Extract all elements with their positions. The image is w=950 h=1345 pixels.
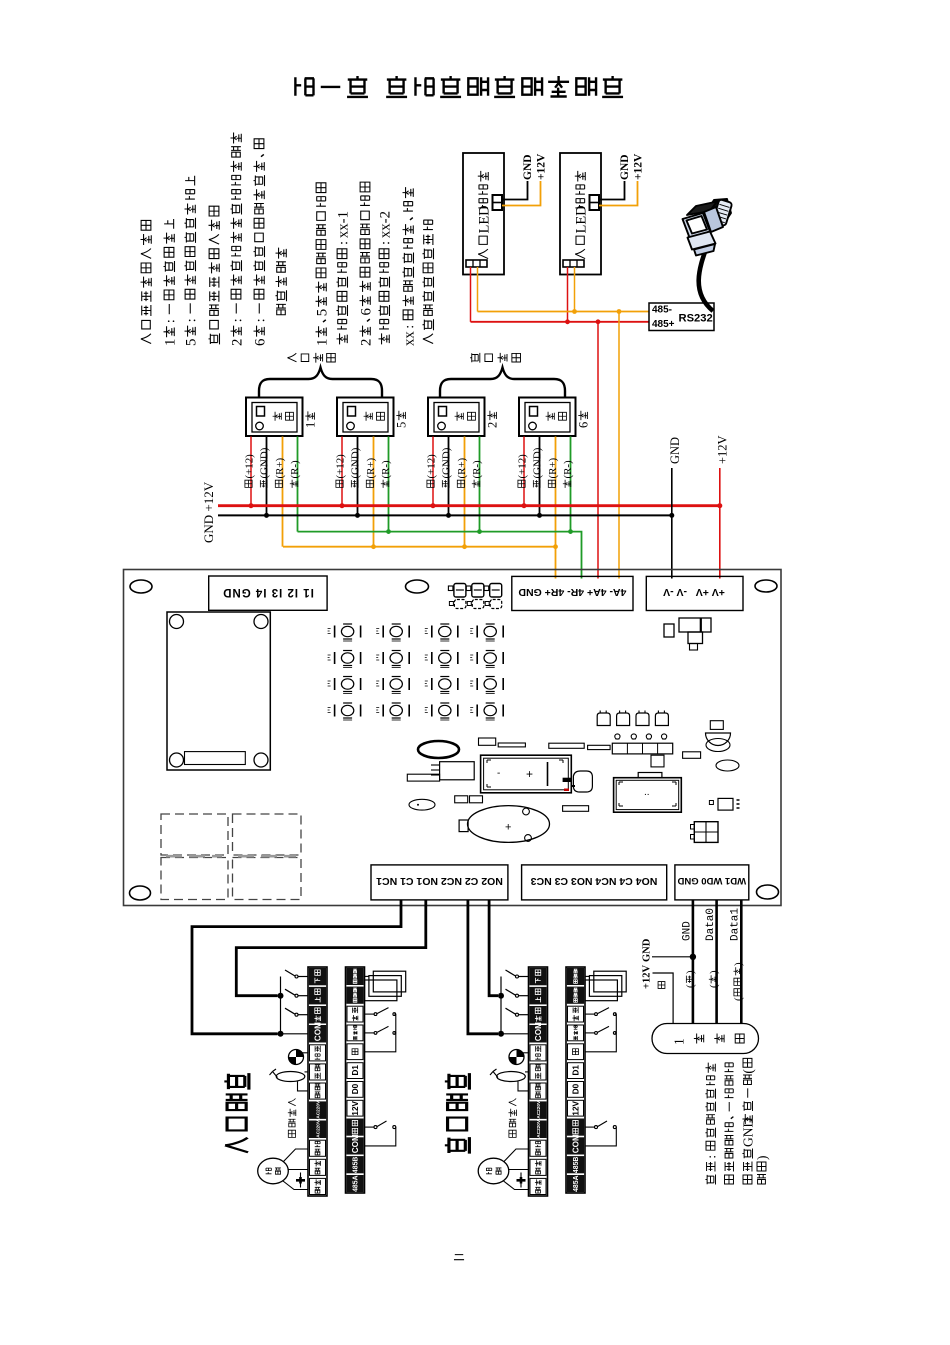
DC power jack — [664, 624, 674, 637]
label 出口读头 — [470, 353, 480, 363]
svg-text:Data0: Data0 — [705, 908, 717, 941]
svg-text:(: ( — [685, 984, 697, 988]
svg-text:(+12): (+12) — [244, 454, 256, 479]
page number — [454, 1255, 464, 1260]
svg-text:485B: 485B — [353, 1157, 360, 1173]
note 注意 — [705, 1063, 715, 1185]
motor 电机 — [258, 1158, 289, 1184]
terminal block +V +V -V -V — [646, 576, 743, 610]
svg-text:(R+): (R+) — [365, 457, 377, 478]
wire red 485+ down to 4A+ — [597, 322, 599, 579]
wire red +12 from reader — [432, 437, 434, 506]
wire yellow R+ from reader — [373, 437, 375, 547]
svg-text:+V +V -V -V: +V +V -V -V — [663, 586, 725, 598]
antenna 天线 — [525, 1071, 529, 1073]
wire 485+ red from LED display 1 — [470, 267, 472, 322]
wire black GND from reader — [266, 437, 268, 516]
wire 红 +12V to reader — [653, 973, 674, 1024]
switches 频率/灵敏度 to 地 — [365, 1013, 375, 1015]
label GND — [522, 154, 534, 180]
svg-text:+: + — [505, 822, 511, 834]
svg-text:+12V: +12V — [536, 153, 548, 180]
svg-text:(+12): (+12) — [517, 454, 529, 479]
buzzer — [468, 806, 550, 843]
svg-text:485-: 485- — [652, 305, 672, 316]
svg-text:4A- 4A+ 4R- 4R+ GND: 4A- 4A+ 4R- 4R+ GND — [518, 586, 626, 598]
connector (RS485) bottom of LED display — [563, 260, 584, 267]
svg-text:GND +12V: GND +12V — [201, 481, 216, 543]
switch 红外 to COM — [365, 1126, 375, 1128]
relay K2 — [614, 778, 682, 813]
svg-text:(R-): (R-) — [380, 460, 392, 479]
junction dots orange — [371, 544, 376, 549]
junction dots green — [386, 529, 391, 534]
label GND (to -V) — [668, 437, 682, 464]
wire black GND from reader — [448, 437, 450, 516]
net R+ orange bus — [283, 546, 556, 548]
svg-text:LED: LED — [476, 205, 492, 233]
svg-text:485A: 485A — [353, 1175, 360, 1191]
switches 频率/灵敏度 to 地 — [585, 1013, 595, 1015]
svg-text:(: ( — [708, 984, 720, 988]
terminal strip 入口道闸 strip2 — [346, 967, 365, 1193]
svg-text:+12V: +12V — [642, 965, 653, 989]
svg-text:): ) — [733, 962, 745, 966]
svg-text:WD1 WD0 GND: WD1 WD0 GND — [677, 875, 746, 886]
svg-text:(R+): (R+) — [547, 457, 559, 478]
svg-text:5: 5 — [183, 339, 199, 346]
label +12V (to +V) — [716, 435, 730, 464]
label GND +12V (power input) — [201, 481, 216, 543]
net R- green bus — [298, 532, 582, 579]
switch contacts 下键/上键/单键 — [519, 976, 529, 978]
terminal block WD1 WD0 GND — [675, 865, 749, 900]
svg-text:GND: GND — [619, 154, 631, 180]
wire +12V (orange) from LED display — [599, 181, 638, 206]
daughter board — [167, 612, 270, 770]
dashed expansion area — [161, 814, 228, 855]
RS232 converter box — [649, 303, 714, 331]
net +12V red bus — [218, 504, 720, 507]
terminal strip 入口道闸 strip1 — [308, 967, 327, 1196]
svg-text:AC220V: AC220V — [315, 1119, 320, 1138]
card reader 1号 读头 — [246, 398, 303, 437]
svg-text:Data1: Data1 — [730, 908, 742, 941]
wire 485- orange from LED display 2 — [574, 267, 576, 312]
svg-text:xx: xx — [401, 331, 417, 346]
note column: installation instructions — [141, 220, 152, 343]
resistors — [549, 743, 584, 748]
svg-text:NO2 C2 NC2 NO1 C1 NC1: NO2 C2 NC2 NO1 C1 NC1 — [376, 875, 503, 887]
svg-text:6: 6 — [252, 339, 268, 346]
label 市电接入 — [508, 1098, 516, 1137]
junction dots — [498, 993, 504, 999]
svg-text:xx-1: xx-1 — [335, 211, 351, 238]
label 市电接入 — [288, 1098, 296, 1137]
connector (RS485) bottom of LED display — [466, 260, 487, 267]
net 485- horizontal orange bus — [478, 311, 650, 313]
capacitor C (snubber) — [573, 771, 592, 792]
wire GND (black) from LED display — [502, 181, 528, 200]
svg-text:GND: GND — [522, 154, 534, 180]
wire 485+ red from LED display 2 — [567, 267, 569, 322]
wire green R- from reader — [570, 437, 572, 532]
terminal strip 出口道闸 strip1 — [529, 967, 548, 1196]
terminal block NO4 C4 NC4 NO3 C3 NC3 — [522, 865, 667, 900]
wire labels 红黑黄绿 — [244, 454, 256, 488]
svg-text:1: 1 — [671, 1038, 686, 1045]
terminal strip 出口道闸 strip2 — [566, 967, 585, 1193]
cable from computer to RS232 — [699, 246, 713, 311]
svg-text:RS232: RS232 — [679, 313, 713, 325]
svg-text:COM: COM — [314, 1022, 323, 1041]
brace 入口读头 group — [259, 368, 382, 398]
svg-text:1: 1 — [314, 339, 330, 346]
wire +12V (orange) from LED display — [502, 181, 541, 206]
svg-text:(R+): (R+) — [274, 457, 286, 478]
connector J2 — [694, 822, 718, 843]
svg-text:6: 6 — [358, 308, 374, 315]
wire 485- orange from LED display 1 — [477, 267, 479, 312]
svg-text:AC220V: AC220V — [536, 1119, 541, 1138]
svg-text:12V: 12V — [572, 1100, 581, 1115]
svg-text:AC220V: AC220V — [315, 1100, 320, 1119]
terminal block 4A- 4A+ 4R- 4R+ GND — [512, 576, 633, 610]
svg-text:(+12): (+12) — [335, 454, 347, 479]
card reader 2号 读头 — [428, 398, 485, 437]
svg-text:GND: GND — [682, 921, 694, 941]
svg-text:COM: COM — [572, 1134, 581, 1153]
card reader 6号 读头 — [519, 398, 576, 437]
connector (power) on LED display — [493, 195, 503, 210]
label 入口读头 — [287, 353, 296, 362]
svg-text:1: 1 — [162, 339, 178, 346]
svg-text:): ) — [708, 970, 720, 974]
svg-text:D1: D1 — [572, 1065, 581, 1076]
svg-text:LED: LED — [573, 205, 589, 233]
antenna 天线 — [305, 1071, 309, 1073]
switch contacts 下键/上键/单键 — [298, 976, 308, 978]
svg-text:(R-): (R-) — [562, 460, 574, 479]
svg-text:..: .. — [644, 787, 650, 798]
controller board outline — [124, 570, 782, 906]
common wire to COM — [500, 977, 502, 1034]
loop coil 地感线 — [585, 975, 589, 977]
LED display 入口LED显示屏 — [560, 153, 601, 275]
regulator component — [440, 762, 475, 780]
svg-text:(R+): (R+) — [456, 457, 468, 478]
wire labels 红黑黄绿 — [517, 454, 529, 488]
svg-text:6: 6 — [577, 422, 591, 428]
svg-text:(R-): (R-) — [471, 460, 483, 479]
wire yellow R+ from reader — [282, 437, 284, 547]
svg-text:12V: 12V — [351, 1100, 360, 1115]
terminal block I1 I2 I3 I4 GND — [209, 576, 327, 610]
wire red +12 from reader — [523, 437, 525, 506]
inductor ring — [418, 741, 459, 758]
label 2号 — [486, 411, 500, 428]
switch 红外 to COM — [585, 1126, 595, 1128]
card reader 5号 读头 — [337, 398, 394, 437]
wire green R- from reader — [297, 437, 299, 532]
wire black GND from reader — [357, 437, 359, 516]
IC with dots — [718, 798, 733, 810]
net GND black bus — [218, 514, 672, 516]
LED display 入口LED显示屏 — [463, 153, 504, 275]
wire Data0 — [715, 900, 718, 1024]
reader 1号读头 oval — [652, 1024, 759, 1054]
relay drivers row — [612, 743, 672, 754]
svg-text:GND: GND — [642, 938, 653, 962]
svg-text:AC220V: AC220V — [536, 1100, 541, 1119]
electrolytic capacitors — [597, 713, 610, 726]
wire GND (black) from LED display — [599, 181, 625, 200]
svg-text:(GND): (GND) — [532, 447, 544, 478]
svg-text:I1 I2 I3 I4 GND: I1 I2 I3 I4 GND — [222, 586, 314, 598]
svg-text:(+12): (+12) — [426, 454, 438, 479]
flash lamp 闪灯 — [301, 1052, 308, 1054]
label +12V — [536, 153, 548, 180]
indicator grid (16 LEDs) — [334, 626, 336, 638]
svg-text:COM: COM — [351, 1134, 360, 1153]
svg-text:1: 1 — [304, 422, 318, 428]
svg-text:(GND): (GND) — [259, 447, 271, 478]
capacitor — [520, 1173, 522, 1188]
wire green R- from reader — [388, 437, 390, 532]
label 入口道闸 — [224, 1073, 249, 1152]
wire C2 to exit barrier 上键 — [489, 900, 498, 996]
wire GND from WD block — [692, 900, 695, 1024]
svg-text:+12V: +12V — [633, 153, 645, 180]
relay K1 — [481, 755, 572, 793]
svg-text:D1: D1 — [351, 1065, 360, 1076]
wire red +12 from reader — [341, 437, 343, 506]
terminal block NO2 C2 NC2 NO1 C1 NC1 — [371, 865, 508, 900]
mounting holes — [130, 580, 152, 593]
wire red +12 from reader — [250, 437, 252, 506]
svg-text:+12V: +12V — [716, 435, 730, 464]
common wire to COM — [280, 977, 282, 1034]
wire NO1 to entry barrier COM — [192, 900, 401, 1034]
wire Data1 — [740, 900, 743, 1024]
wire yellow R+ from reader — [464, 437, 466, 547]
svg-text:485+: 485+ — [652, 319, 675, 330]
title 第一章 停车场控制板接线图 — [295, 76, 623, 97]
svg-text:2: 2 — [229, 339, 245, 346]
svg-text:2: 2 — [358, 339, 374, 346]
net 485+ horizontal red bus — [471, 321, 650, 323]
svg-text:(R-): (R-) — [289, 460, 301, 479]
wire green R- from reader — [479, 437, 481, 532]
svg-text:(GND): (GND) — [350, 447, 362, 478]
label +12V — [633, 153, 645, 180]
loop coil 地感线 — [365, 975, 369, 977]
svg-text:2: 2 — [486, 422, 500, 428]
label 红 — [658, 982, 665, 989]
small ellipse component — [409, 799, 435, 810]
junction dots on GND bus — [264, 513, 269, 518]
wire labels 红黑黄绿 — [335, 454, 347, 488]
label 1号 — [304, 411, 318, 428]
transistors — [615, 734, 620, 739]
svg-text:COM: COM — [534, 1022, 543, 1041]
brace 出口读头 group — [440, 368, 565, 398]
flash lamp 闪灯 — [522, 1052, 529, 1054]
wire C1 to entry barrier 上键 — [236, 900, 425, 996]
junction dots on +12V bus — [249, 503, 254, 508]
wire yellow R+ from reader — [555, 437, 557, 579]
svg-text:): ) — [685, 970, 697, 974]
wire labels 红黑黄绿 — [426, 454, 438, 488]
label 6号 — [577, 411, 591, 428]
svg-text:5: 5 — [314, 309, 330, 316]
motor 电机 — [478, 1158, 509, 1184]
label 5号 — [395, 411, 409, 428]
svg-text:xx-2: xx-2 — [377, 211, 393, 238]
wire GND down to -V terminal — [671, 468, 673, 579]
junction dot GND — [690, 954, 696, 960]
wire NO2 to exit barrier COM — [468, 900, 498, 1034]
transistor TO-92 — [706, 733, 731, 746]
svg-text:NO4 C4 NC4 NO3 C3 NC3: NO4 C4 NC4 NO3 C3 NC3 — [531, 875, 658, 887]
svg-text:+: + — [526, 767, 533, 781]
computer icon (PC with keyboard) — [683, 199, 733, 256]
svg-text:D0: D0 — [572, 1083, 581, 1094]
jumper connectors — [448, 586, 453, 591]
wire black GND from reader — [539, 437, 541, 516]
svg-text:(: ( — [733, 997, 745, 1001]
svg-text:D0: D0 — [351, 1083, 360, 1094]
wire orange 485- down to 4A- — [618, 312, 620, 579]
svg-text:(: ( — [740, 1069, 755, 1074]
svg-text:GND: GND — [740, 1118, 755, 1147]
svg-text:-: - — [497, 768, 500, 779]
wire +12V GND branch — [652, 956, 693, 958]
label 出口道闸 — [445, 1073, 470, 1153]
labels GND Data0 Data1 — [682, 921, 694, 941]
wire +12V down to +V terminal — [719, 468, 721, 579]
svg-text:485A: 485A — [573, 1175, 580, 1191]
capacitor — [300, 1173, 302, 1188]
svg-text:): ) — [754, 1156, 769, 1161]
svg-text:GND: GND — [668, 437, 682, 464]
svg-text:(GND): (GND) — [441, 447, 453, 478]
connector (power) on LED display — [590, 195, 600, 210]
labels wire colors — [685, 970, 697, 988]
svg-text:5: 5 — [395, 422, 409, 428]
label +12V GND — [642, 965, 653, 989]
junction dots on 485 lines — [572, 309, 577, 314]
label GND — [619, 154, 631, 180]
svg-text:485B: 485B — [573, 1157, 580, 1173]
junction dots — [278, 993, 284, 999]
